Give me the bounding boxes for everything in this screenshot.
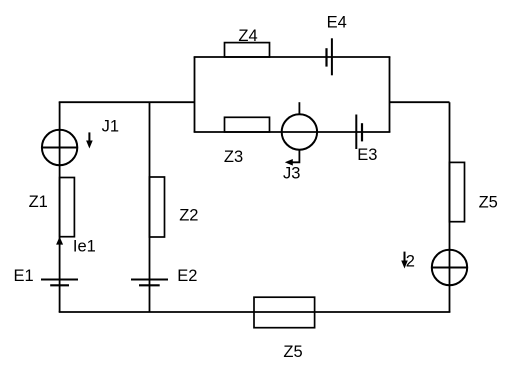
current arrow Ie1 bbox=[56, 237, 63, 245]
wire: parallel block left edge bbox=[194, 57, 196, 132]
arrow J1 direction bbox=[86, 132, 93, 148]
svg-text:E1: E1 bbox=[14, 267, 34, 285]
impedance Z1 bbox=[60, 178, 75, 237]
EMF source E3 bbox=[356, 115, 362, 150]
current source J1 bbox=[42, 130, 77, 165]
wire: right vertical branch bbox=[449, 102, 451, 312]
svg-text:2: 2 bbox=[406, 252, 415, 270]
EMF source E4 bbox=[327, 38, 332, 75]
svg-text:E4: E4 bbox=[327, 14, 347, 32]
svg-text:Z1: Z1 bbox=[29, 193, 48, 211]
impedance Z3 bbox=[225, 117, 270, 132]
wire: middle vertical branch bbox=[149, 102, 151, 312]
svg-text:Z2: Z2 bbox=[179, 207, 198, 225]
EMF source E1 bbox=[41, 280, 78, 286]
impedance Z5 bottom bbox=[254, 297, 315, 328]
arrow J3 direction bbox=[285, 150, 300, 166]
EMF source E2 bbox=[131, 280, 168, 286]
svg-text:Z5: Z5 bbox=[479, 194, 498, 212]
svg-text:E3: E3 bbox=[357, 146, 377, 164]
svg-text:Z5: Z5 bbox=[283, 343, 302, 361]
wire: bottom horizontal bbox=[59, 311, 451, 313]
wire: top horizontal bbox=[59, 101, 195, 103]
wire: block output to right bbox=[390, 101, 450, 103]
current source J2 bbox=[432, 250, 467, 285]
svg-text:Z4: Z4 bbox=[238, 27, 257, 45]
svg-text:J1: J1 bbox=[102, 118, 119, 136]
svg-text:E2: E2 bbox=[177, 267, 197, 285]
wire: parallel block top branch bbox=[194, 56, 391, 58]
current source J3 bbox=[282, 102, 317, 150]
svg-text:Z3: Z3 bbox=[224, 148, 243, 166]
wire: left vertical branch bbox=[59, 102, 61, 312]
arrow J2 direction bbox=[401, 252, 408, 269]
wire: parallel block right edge bbox=[389, 57, 391, 132]
svg-text:J3: J3 bbox=[283, 164, 300, 182]
svg-text:Ie1: Ie1 bbox=[73, 237, 96, 255]
impedance Z5 right bbox=[449, 162, 464, 221]
impedance Z4 bbox=[225, 43, 270, 57]
impedance Z2 bbox=[149, 177, 164, 237]
wire: parallel block bottom branch bbox=[194, 131, 391, 133]
